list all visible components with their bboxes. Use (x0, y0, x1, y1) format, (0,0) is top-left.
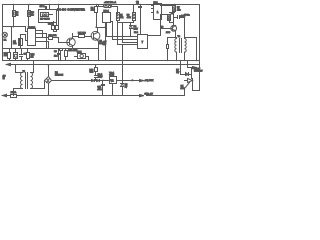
resistor R2 (28, 5, 35, 29)
resistor R3 (91, 5, 98, 28)
diode D3 (92, 80, 95, 82)
svg-text:AC: AC (3, 74, 6, 77)
svg-text:10k: 10k (120, 17, 124, 19)
wire emitter rail (3, 48, 99, 50)
wire right edge L (193, 5, 200, 91)
wire misc mid (118, 23, 141, 35)
node rail dots (8, 60, 123, 96)
wire rail A (3, 60, 200, 62)
svg-text:7: 7 (142, 40, 144, 44)
svg-text:F1 2A: F1 2A (11, 91, 17, 94)
svg-text:HV: HV (176, 72, 180, 74)
resistor R16 (90, 65, 98, 74)
svg-text:400V: 400V (98, 76, 103, 78)
svg-text:C2 C3: C2 C3 (48, 24, 55, 26)
wire osc right (58, 5, 60, 25)
svg-text:OUTPUT: OUTPUT (194, 71, 203, 73)
resistor R6 (133, 5, 136, 23)
lamp NE1 (14, 49, 18, 61)
svg-text:DIP 32.768: DIP 32.768 (40, 19, 49, 21)
terminal +5V (132, 79, 154, 82)
wire bottom left arrow (3, 94, 7, 96)
svg-text:10u: 10u (54, 55, 58, 57)
capacitor C6 (54, 49, 61, 61)
wire q2 collector (98, 23, 106, 61)
svg-text:VR: VR (110, 80, 114, 82)
node t2 bottom dots (167, 60, 200, 61)
resistor R1 (13, 5, 20, 27)
capacitor C8 (136, 1, 142, 26)
capacitor C9 (174, 15, 191, 38)
svg-text:C10: C10 (90, 72, 95, 74)
diode D1 (2, 32, 7, 41)
svg-text:4.7k: 4.7k (127, 17, 132, 19)
node dot collector (105, 27, 106, 28)
resistor R10 (47, 35, 67, 43)
transistor Q2 (91, 28, 106, 49)
svg-text:47k: 47k (177, 9, 181, 11)
resistor R13 (4, 49, 11, 61)
svg-text:C9 1u: C9 1u (184, 15, 190, 17)
wire ic1 right (165, 6, 175, 15)
IC-1 box (152, 2, 165, 20)
capacitor C7 (40, 6, 47, 10)
svg-text:C1815: C1815 (99, 43, 106, 45)
node dots ic1 (11, 26, 97, 28)
transformer T1 (14, 61, 45, 96)
terminal HV out (188, 61, 204, 73)
wire rail B arrow (7, 64, 200, 66)
wire ic1 top (3, 27, 29, 49)
transistor Q1 (67, 34, 76, 49)
IC DIP-1 (103, 11, 111, 23)
wire bottom rail join (48, 95, 185, 97)
svg-text:T2: T2 (178, 36, 181, 38)
wire ic2 left (107, 22, 138, 45)
wire r7 to q3 (174, 12, 176, 14)
diode D4b (97, 80, 100, 82)
svg-text:R8: R8 (171, 13, 173, 15)
relay RY1 (75, 52, 89, 61)
resistor R8 (168, 13, 175, 26)
svg-text:1k: 1k (16, 14, 18, 16)
resistor R4 (117, 13, 120, 23)
fuse F1 (3, 91, 48, 98)
resistor R11 (73, 33, 92, 38)
wire dc bus (52, 80, 103, 82)
wire ic2 right up (161, 15, 165, 36)
node top rail dots (13, 4, 175, 5)
resistor R7 (173, 5, 182, 13)
wire v122 (122, 45, 124, 83)
svg-text:6V: 6V (125, 87, 128, 89)
svg-text:BRIDGE: BRIDGE (55, 75, 64, 77)
svg-text:C7 1u: C7 1u (40, 6, 45, 8)
wire q4 emitter (184, 89, 186, 96)
svg-text:1: 1 (157, 10, 159, 14)
zener D4 (130, 23, 139, 37)
svg-text:+12V 100mA: +12V 100mA (104, 1, 117, 4)
bridge D2 (45, 72, 64, 83)
transistor Q4 (181, 75, 193, 90)
svg-text:IC8038: IC8038 (28, 27, 36, 29)
transistor Q3 (161, 13, 177, 34)
wire bridge conns (45, 65, 49, 96)
wire v99 (98, 49, 100, 61)
IC1 main (26, 27, 49, 49)
svg-text:6.2V: 6.2V (134, 29, 139, 31)
regulator VR1 (103, 72, 140, 95)
fuse F2 (99, 1, 118, 13)
IC-2 optocoupler (134, 32, 161, 48)
diode D5 (167, 38, 177, 61)
wire ic right verticals (43, 31, 47, 49)
svg-text:DIP-1: DIP-1 (104, 11, 110, 13)
svg-text:D1: D1 (4, 40, 8, 42)
capacitor C11 (97, 81, 104, 96)
svg-text:+5V, AUX: +5V, AUX (144, 79, 153, 82)
zener D6 (121, 83, 129, 96)
svg-text:C6: C6 (54, 51, 58, 53)
resistor R12 (60, 49, 63, 61)
crystal X1 (40, 13, 52, 21)
resistor R15 (65, 49, 79, 61)
wire osc feed (49, 5, 51, 10)
wire top rail (3, 4, 200, 6)
capacitor C10 (95, 73, 98, 81)
svg-text:2SC: 2SC (166, 32, 171, 34)
capacitor C5 (20, 49, 28, 61)
svg-text:1k: 1k (31, 14, 33, 16)
resistor R14 (27, 49, 36, 61)
svg-text:10u: 10u (13, 43, 17, 45)
transformer T2 (175, 32, 197, 61)
wire left edge vertical (2, 5, 4, 61)
svg-text:IN: IN (3, 78, 6, 80)
capacitor C4 (13, 35, 26, 49)
terminal GND (140, 94, 154, 97)
svg-text:1M: 1M (31, 57, 34, 59)
diode D7 (181, 61, 192, 76)
node osc box (39, 10, 57, 23)
svg-text:DC-DC CONVERTER: DC-DC CONVERTER (57, 9, 85, 12)
svg-text:IC-2: IC-2 (134, 32, 139, 34)
capacitor C2 C3 (48, 22, 59, 32)
